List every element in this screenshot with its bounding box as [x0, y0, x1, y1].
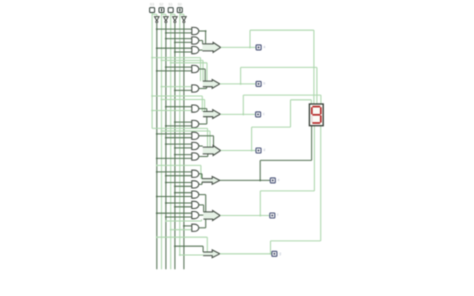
svg-text:e: e	[278, 178, 280, 182]
svg-text:d: d	[263, 148, 265, 152]
svg-text:S3: S3	[150, 3, 154, 7]
svg-text:g: g	[279, 251, 281, 255]
svg-text:b: b	[264, 82, 266, 86]
svg-text:S0: S0	[178, 3, 182, 7]
svg-text:a: a	[264, 45, 266, 49]
svg-text:f: f	[277, 213, 278, 217]
svg-text:S1: S1	[169, 3, 173, 7]
svg-text:S2: S2	[159, 3, 163, 7]
